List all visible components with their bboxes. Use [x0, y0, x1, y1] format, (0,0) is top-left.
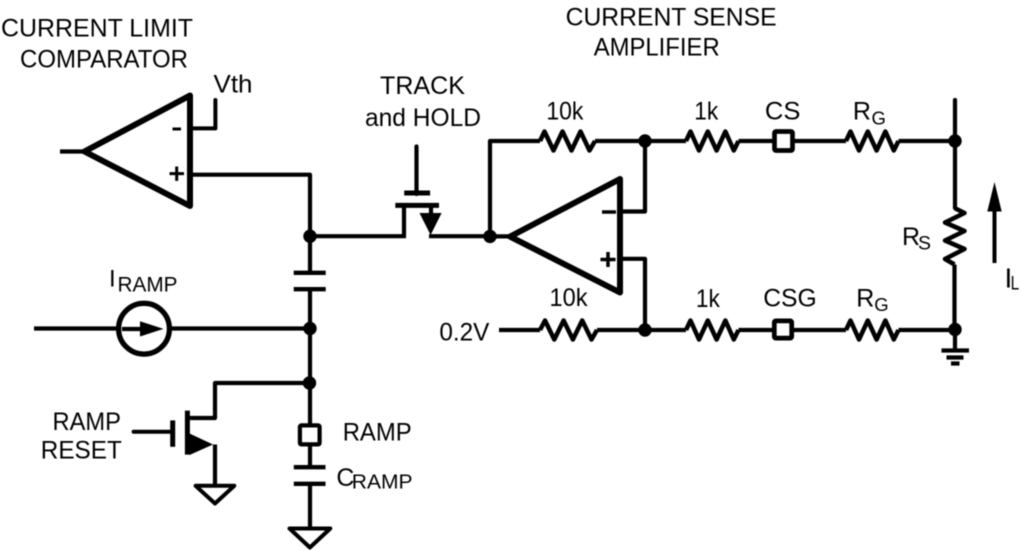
wire R2 to node D: [597, 328, 686, 332]
svg-text:G: G: [874, 294, 888, 315]
svg-text:G: G: [872, 108, 886, 129]
node H: [303, 376, 316, 389]
wire U1 non-inverting input: [192, 175, 310, 236]
resistor R5 1k bottom: [686, 321, 739, 340]
svg-text:RAMP: RAMP: [53, 408, 121, 436]
wire CRAMP to ground: [308, 484, 312, 529]
label RAMP RESET: [41, 408, 122, 465]
wire M2 source to ground: [213, 445, 217, 488]
label IRAMP: [109, 265, 178, 296]
wire R4 to node E: [899, 139, 956, 143]
wire U1 output stub: [60, 149, 86, 153]
svg-text:R: R: [853, 98, 871, 126]
ground G3 (open triangle, bottom): [290, 529, 331, 548]
svg-text:and HOLD: and HOLD: [365, 104, 481, 132]
svg-text:CS: CS: [765, 98, 801, 126]
wire U2 inverting input: [620, 141, 645, 212]
node E (CS rail top): [948, 134, 961, 147]
arrow IL load current: [993, 206, 997, 263]
capacitor CRAMP: [294, 467, 326, 484]
label CRAMP: [336, 464, 412, 494]
svg-text:10k: 10k: [546, 97, 583, 125]
transistor M1 track-and-hold: [395, 147, 441, 237]
wire RS to node F: [952, 265, 956, 331]
wire R1 to node C: [595, 139, 686, 143]
wire R6 to node F: [899, 328, 956, 332]
U2 plus sign: [601, 252, 616, 267]
svg-text:RAMP: RAMP: [352, 472, 413, 494]
comparator U1: [85, 96, 191, 207]
svg-text:CSG: CSG: [763, 285, 817, 313]
svg-text:1k: 1k: [696, 285, 720, 313]
svg-text:L: L: [1011, 274, 1020, 295]
node A (track-hold input): [303, 230, 316, 243]
wire CS box to R4: [794, 139, 846, 143]
label RG bottom: [856, 284, 888, 315]
node C: [638, 134, 651, 147]
svg-text:RAMP: RAMP: [343, 418, 412, 446]
wire R5 to CSG box: [739, 328, 774, 332]
node F (CSG rail bottom): [948, 323, 961, 336]
svg-text:CURRENT LIMIT: CURRENT LIMIT: [1, 14, 193, 42]
svg-text:RESET: RESET: [41, 437, 122, 465]
resistor R3 1k top: [686, 132, 739, 151]
wire node H to M2 drain: [188, 383, 310, 418]
label IL: [1005, 263, 1020, 295]
wire U2 non-inverting input: [620, 259, 645, 330]
svg-text:I: I: [109, 265, 116, 292]
resistor R6 RG bottom: [846, 321, 899, 340]
wire feedback from node B: [490, 141, 540, 236]
node B (amp output node): [483, 230, 496, 243]
wire IRAMP to node G: [170, 326, 310, 330]
U1 plus sign: [170, 167, 185, 181]
svg-text:CURRENT SENSE: CURRENT SENSE: [566, 4, 777, 32]
U2 minus sign: [602, 210, 616, 214]
svg-text:Vth: Vth: [214, 71, 253, 99]
wire stub above node E: [953, 100, 957, 141]
op-amp U2 current sense amplifier: [510, 179, 620, 293]
wire RAMP box to CRAMP: [308, 444, 312, 467]
ground G1 (chassis, right): [942, 330, 970, 364]
ground G2 (open triangle, M2 source): [196, 486, 235, 504]
svg-text:1k: 1k: [694, 98, 718, 126]
wire node G to node H: [308, 328, 312, 383]
wire U1 inverting input to Vth: [190, 100, 215, 128]
transistor M2 ramp reset: [134, 411, 213, 455]
resistor R1 10k feedback: [540, 132, 595, 151]
wire M1 drain to node B: [429, 234, 490, 238]
pin RAMP box: [300, 425, 320, 444]
label RS: [902, 223, 931, 255]
svg-text:S: S: [918, 233, 931, 255]
svg-text:0.2V: 0.2V: [439, 319, 489, 347]
svg-text:COMPARATOR: COMPARATOR: [20, 46, 188, 74]
node D: [638, 323, 651, 336]
label CURRENT SENSE AMPLIFIER: [566, 4, 777, 62]
label RG top: [853, 98, 886, 129]
svg-text:TRACK: TRACK: [380, 72, 465, 100]
wire node E to RS: [953, 141, 957, 209]
wire node A to M1 source: [310, 234, 406, 238]
wire C1 to node G: [308, 289, 312, 328]
resistor RS sense: [945, 208, 965, 265]
U1 minus sign: [173, 128, 182, 131]
wire R3 to CS box: [739, 139, 776, 143]
svg-text:10k: 10k: [550, 284, 588, 312]
wire node A down to C1: [308, 236, 312, 272]
resistor R2 10k bias: [540, 321, 597, 340]
wire CSG box to R6: [794, 328, 846, 332]
svg-text:R: R: [856, 284, 874, 312]
svg-text:AMPLIFIER: AMPLIFIER: [594, 33, 720, 61]
svg-text:RAMP: RAMP: [118, 272, 178, 296]
wire IRAMP left lead: [34, 326, 119, 330]
resistor R4 RG top: [846, 132, 899, 151]
label TRACK and HOLD: [365, 72, 481, 132]
node G: [303, 322, 316, 335]
wire node H to RAMP box: [308, 383, 312, 425]
pin CS box: [775, 132, 793, 151]
pin CSG box: [774, 321, 791, 338]
capacitor C1 (series): [294, 273, 326, 289]
current source IRAMP: [119, 303, 170, 354]
label CURRENT LIMIT COMPARATOR: [1, 14, 193, 73]
wire node B to U2 output: [490, 234, 512, 238]
wire 0.2V to R2: [499, 328, 540, 332]
